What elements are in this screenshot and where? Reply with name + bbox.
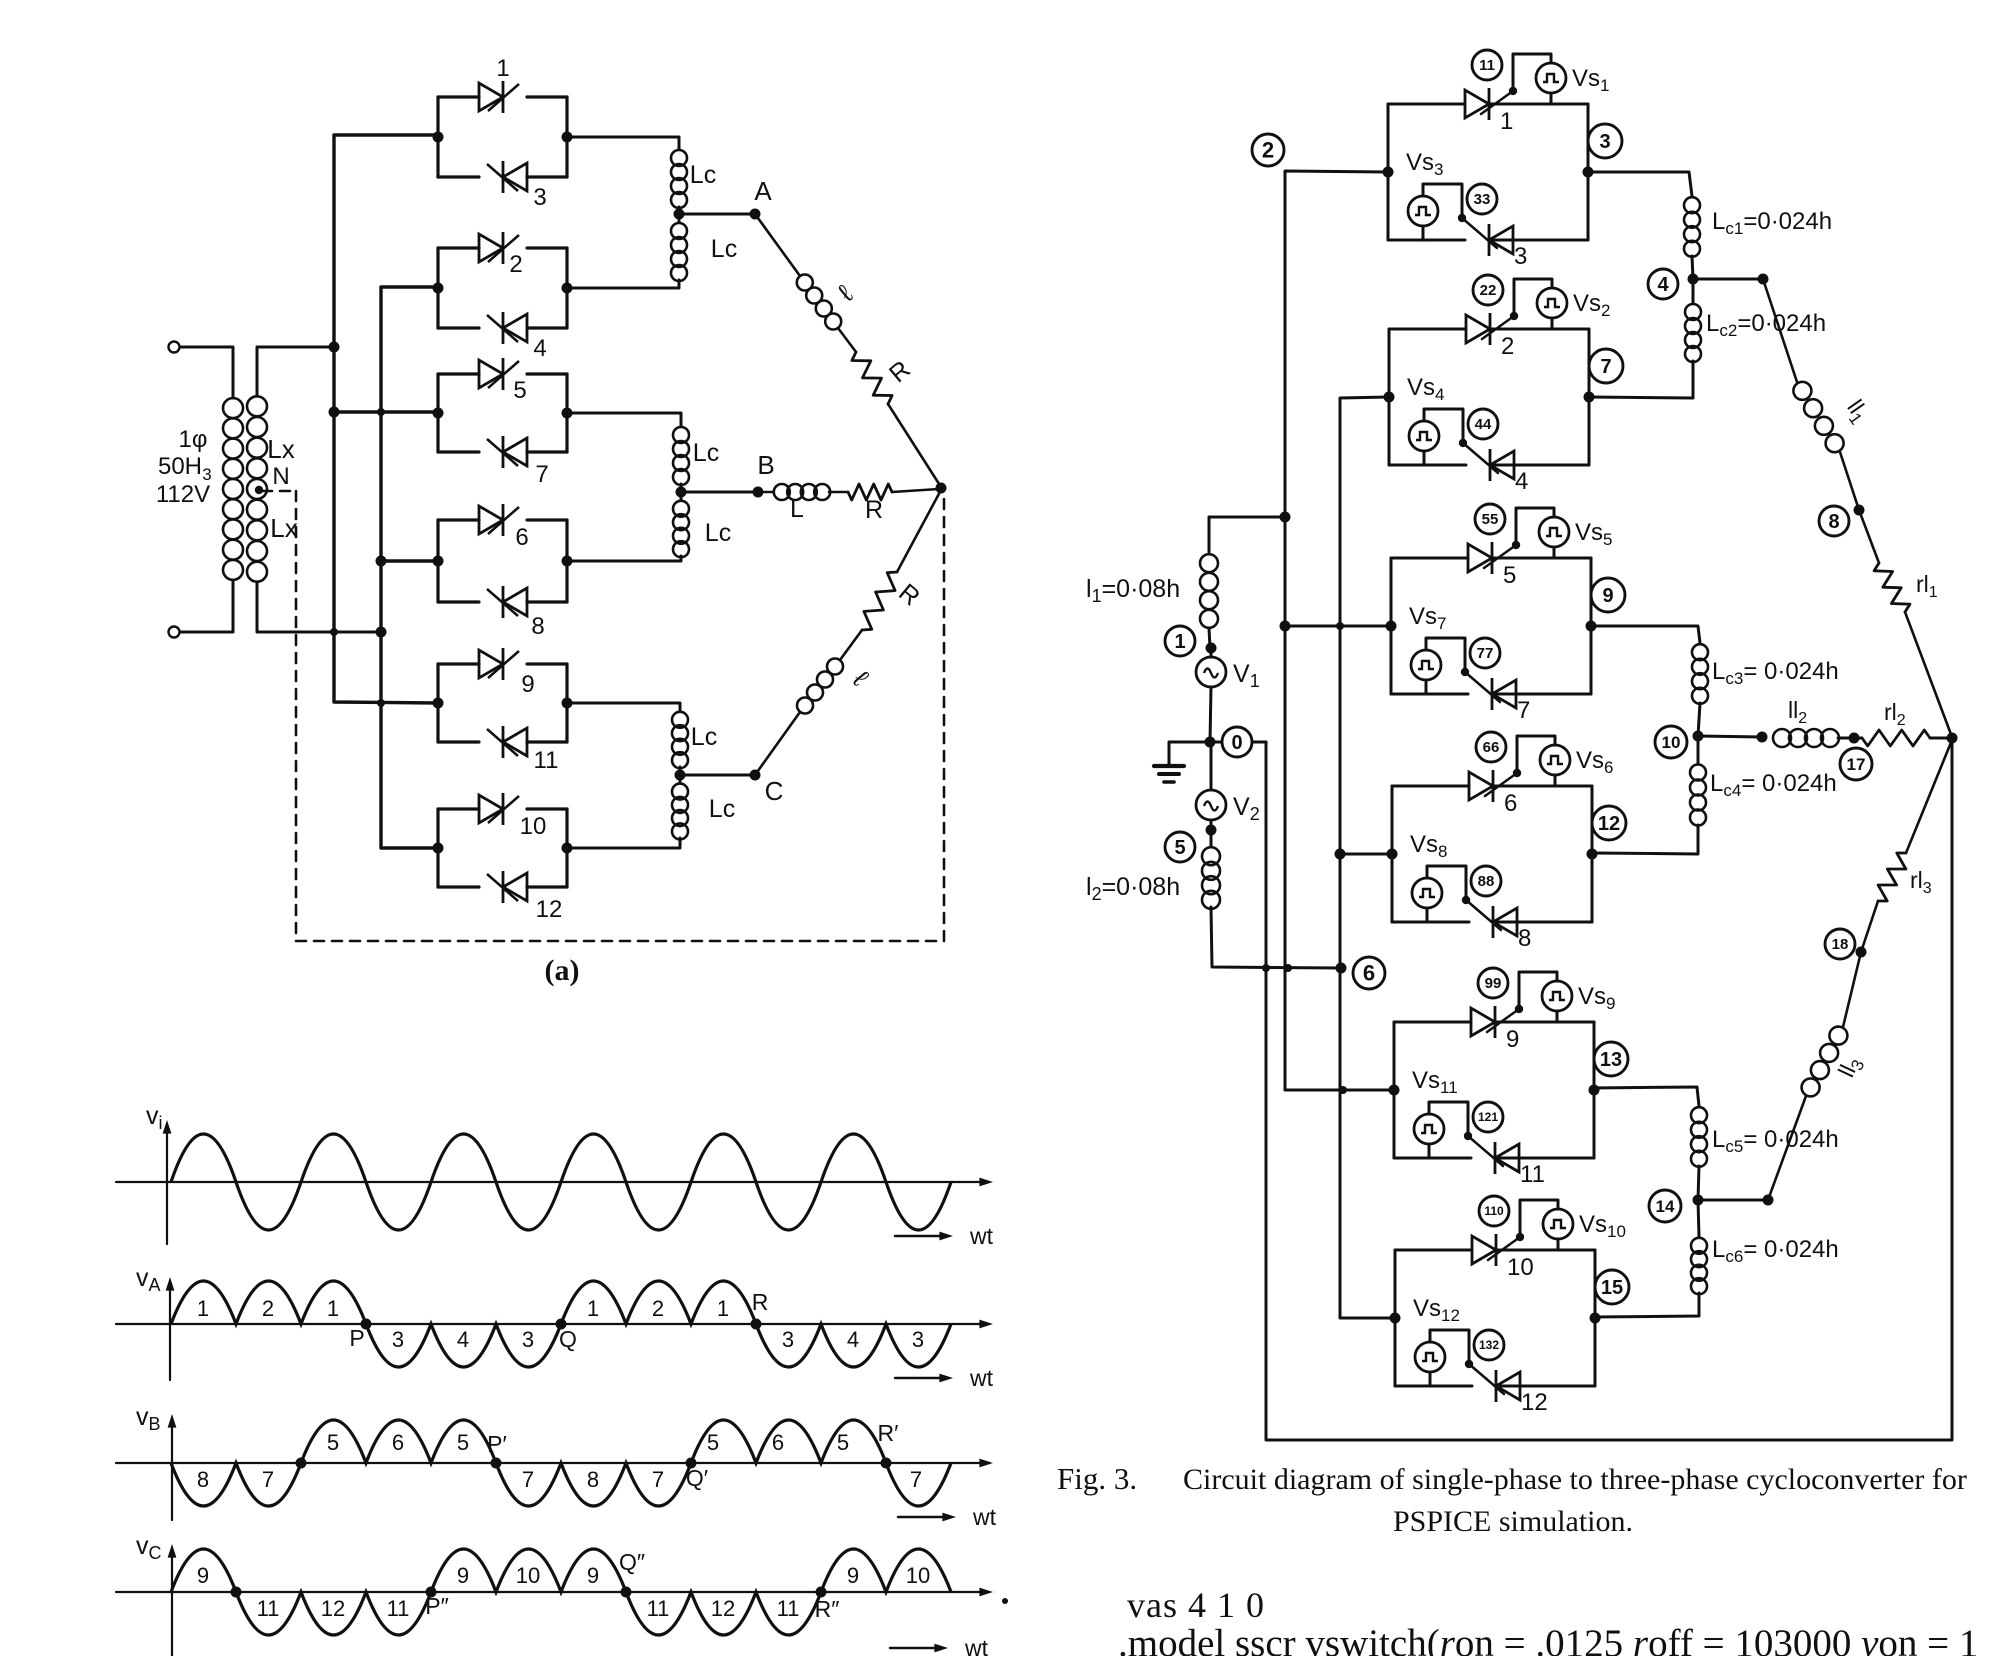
pulse source Vs1 [1536,63,1566,93]
svg-text:6: 6 [1504,790,1517,817]
junction right [1590,1313,1601,1324]
thyristor block 1/3 [1387,104,1390,240]
gate node 66 [1476,732,1506,762]
node P'' [426,1587,437,1598]
junction left [1384,392,1395,403]
junction node 4 [1688,274,1699,285]
wire [1698,1166,1699,1200]
thyristor pair box 9/11 [436,664,439,742]
gate node 77 [1470,638,1500,668]
thyristor 9 [1471,1006,1495,1038]
svg-text:R: R [752,1289,769,1315]
junction node 6 [1336,963,1347,974]
junction [1758,274,1769,285]
node R'' [816,1587,827,1598]
wire [1768,1096,1806,1200]
svg-text:77: 77 [1477,645,1494,662]
wt arrow [898,1516,948,1518]
junction L1 tap [1280,512,1291,523]
wire [1905,612,1952,737]
svg-text:9: 9 [1506,1026,1519,1053]
gate wire thyristor 10 [1488,1237,1520,1260]
inductor L2 [1202,847,1220,909]
PSPICE cycloconverter circuit Fig.3 [1086,50,1958,1440]
wire block5/7 to Lc3 [1591,626,1700,643]
junction node 5 [1206,825,1217,836]
wire node2 to bus [1285,171,1394,1090]
junction [1280,621,1291,632]
wire [1557,1239,1560,1250]
wire [180,580,233,632]
svg-text:5: 5 [457,1430,469,1455]
wire [257,347,334,396]
wire [1840,452,1859,510]
svg-text:11: 11 [777,1596,800,1621]
gate node 44 [1468,409,1498,439]
gate wire thyristor 6 [1485,773,1517,796]
svg-text:7: 7 [1517,697,1530,724]
phase B interphase reactors [567,413,681,426]
svg-text:Lc: Lc [709,795,735,823]
inductor L1 [1200,554,1218,628]
svg-text:Q″: Q″ [619,1549,645,1575]
wire [567,838,680,848]
svg-text:12: 12 [321,1596,345,1621]
svg-text:R′: R′ [878,1420,899,1446]
svg-text:99: 99 [1485,975,1502,992]
gate node 88 [1471,866,1501,896]
svg-text:R″: R″ [815,1596,840,1622]
svg-text:121: 121 [1478,1110,1498,1124]
svg-text:10: 10 [1662,733,1681,752]
junction left [433,132,444,143]
svg-text:N: N [272,463,289,490]
gate wire thyristor 12 [1469,1364,1504,1394]
svg-text:2: 2 [652,1296,664,1321]
node 13 [1594,1042,1628,1076]
thyristor 12 [1496,1370,1520,1402]
node 15 [1595,1270,1629,1304]
crossing blob [1262,964,1270,972]
gate wire thyristor 8 [1466,900,1501,930]
node 10 [1655,726,1687,758]
thyristor 2 [1466,313,1490,345]
input terminal top [169,342,180,353]
svg-text:17: 17 [1847,755,1866,774]
wire [758,491,773,494]
svg-text:66: 66 [1483,739,1500,756]
svg-text:3: 3 [522,1327,534,1352]
gate node 110 [1479,1196,1509,1226]
thyristor 3 [1489,224,1513,256]
resistor rl3 [1878,853,1906,901]
svg-text:2: 2 [1262,137,1274,162]
waveform plots [116,1102,997,1661]
thyristor 10 [479,793,519,825]
thyristor block 9/11 [1393,1022,1396,1158]
bus from secondary top (odd thyristor groups) [334,135,438,703]
Lc6 chain [1698,1200,1699,1237]
gate wiring Vs7 [1426,638,1465,672]
wire [755,214,800,276]
wire to C [680,774,755,777]
svg-text:9: 9 [197,1563,209,1588]
inductor Lc (A upper) [671,150,687,208]
ground symbol [1169,742,1210,766]
node 18 [1825,929,1855,959]
inductor ll3 [1802,1027,1848,1097]
svg-text:11: 11 [1520,1161,1545,1188]
inductor L (phase C) [797,659,843,714]
node Q' [686,1458,697,1469]
wire [1210,830,1213,847]
svg-text:11: 11 [257,1596,280,1621]
source V1 [1196,657,1226,687]
wire [1554,775,1557,786]
wire [1429,1372,1432,1386]
gate wiring Vs4 [1424,409,1463,443]
junction node 14 [1693,1195,1704,1206]
crossing blob [330,628,338,636]
crossing dot [296,1458,307,1469]
svg-text:1: 1 [717,1296,729,1321]
pulse source Vs12 [1415,1342,1445,1372]
wire [1210,742,1213,790]
gate wire thyristor 3 [1462,218,1497,248]
svg-text:Lc: Lc [691,723,717,751]
wire [1698,703,1700,736]
svg-text:9: 9 [521,671,534,698]
thyristor 3 [487,161,527,193]
thyristor 4 [487,312,527,344]
gate wiring Vs12 [1430,1330,1469,1364]
inductor Lc3 [1692,644,1708,704]
svg-text:8: 8 [1828,511,1839,533]
svg-text:3: 3 [912,1327,924,1352]
svg-text:9: 9 [457,1563,469,1588]
svg-text:55: 55 [1482,511,1499,528]
junction [1757,732,1768,743]
gate wire thyristor 11 [1468,1136,1503,1166]
svg-text:5: 5 [1503,562,1516,589]
wire [1210,820,1213,830]
gate wire thyristor 9 [1487,1009,1519,1032]
wire [1846,737,1862,740]
svg-text:Lc: Lc [711,235,737,263]
pulse source Vs5 [1539,517,1569,547]
horizontal axis [116,1462,985,1464]
thyristor 6 [479,504,519,536]
node 14 [1649,1190,1681,1222]
junction node 18 [1856,947,1867,958]
thyristor 8 [487,586,527,618]
svg-text:6: 6 [392,1430,404,1455]
gate node 99 [1478,968,1508,998]
inductor Lc5 [1691,1107,1707,1167]
svg-text:6: 6 [1363,960,1375,985]
svg-text:5: 5 [1174,837,1185,859]
resistor rl2 [1862,730,1930,746]
junction left [433,556,444,567]
wire bus to block 6/8 [1340,853,1392,856]
svg-text:3: 3 [392,1327,404,1352]
wire [1556,1011,1559,1022]
svg-text:22: 22 [1480,282,1497,299]
svg-text:wt: wt [972,1504,997,1530]
svg-text:A: A [754,176,772,206]
inductor Lc2 [1685,304,1701,362]
svg-text:112V: 112V [156,481,210,508]
wire block1/3 to Lc1 [1588,172,1692,196]
wire [755,712,800,775]
wire [897,490,941,572]
resistor rl1 [1874,563,1910,612]
gate wire thyristor 7 [1465,672,1500,702]
node 1 [1165,626,1195,656]
gate node 132 [1474,1330,1504,1360]
thyristor 1 [1465,88,1489,120]
junction right [1586,621,1597,632]
wt arrow [895,1235,945,1237]
svg-text:Circuit diagram of single-phas: Circuit diagram of single-phase to three… [1183,1463,1967,1496]
svg-text:PSPICE simulation.: PSPICE simulation. [1393,1505,1633,1538]
svg-text:7: 7 [262,1467,274,1492]
svg-text:B: B [757,450,774,480]
wire to box 5/7 [334,410,438,413]
crossing dot [231,1587,242,1598]
svg-text:C: C [765,776,784,806]
wire [1692,256,1693,279]
label ll1 [1839,395,1875,428]
wire [1843,952,1861,1027]
junction right [562,283,573,294]
wire [1428,1144,1431,1158]
svg-text:7: 7 [522,1467,534,1492]
wt arrow [895,1377,945,1379]
crossing blob [1284,964,1292,972]
svg-text:Lc: Lc [693,439,719,467]
junction node 8 [1854,505,1865,516]
node 3 [1588,124,1622,158]
junction right [1587,849,1598,860]
junction node 0 [1205,737,1216,748]
pulse source Vs9 [1542,981,1572,1011]
horizontal axis [116,1323,985,1325]
thyristor pair box 10/12 [436,809,439,887]
svg-text:12: 12 [536,896,563,923]
node 2 [1252,134,1284,166]
pulse source Vs7 [1411,650,1441,680]
junction [1335,849,1346,860]
svg-text:13: 13 [1600,1049,1622,1071]
thyristor 5 [479,358,519,390]
svg-text:11: 11 [387,1596,410,1621]
svg-text:3: 3 [782,1327,794,1352]
junction right [562,408,573,419]
node 17 [1840,748,1872,780]
wire [1838,737,1846,740]
wire [1861,901,1878,952]
svg-text:3: 3 [1514,243,1527,270]
node R' [881,1458,892,1469]
junction [1849,733,1860,744]
svg-text:4: 4 [457,1327,469,1352]
node 7 [1589,349,1623,383]
wire [1209,628,1210,648]
junction node 1 [1206,643,1217,654]
gate node 121 [1473,1102,1503,1132]
wire [1906,740,1952,853]
junction B [676,487,687,498]
wire [892,489,939,492]
svg-text:1φ: 1φ [179,426,208,453]
junction left [1383,167,1394,178]
svg-text:10: 10 [1507,1254,1534,1281]
svg-text:vas 4 1 0: vas 4 1 0 [1127,1585,1265,1625]
node R [751,1319,762,1330]
wire [1693,278,1763,281]
node Q [556,1319,567,1330]
node 5 [1165,832,1195,862]
thyristor pair box 6/8 [436,520,439,602]
junction right [1584,392,1595,403]
svg-text:(a): (a) [545,954,580,987]
svg-text:1: 1 [496,55,509,82]
thyristor 5 [1468,542,1492,574]
thyristor 4 [1490,449,1514,481]
wire [1859,510,1879,563]
wire to A [679,213,755,216]
svg-text:wt: wt [964,1635,989,1656]
wire L2 to node 6 [1211,907,1341,968]
label ll3 [1833,1052,1869,1083]
gate wire thyristor 1 [1481,91,1513,114]
wire [1930,737,1952,740]
svg-text:88: 88 [1478,873,1495,890]
thyristor block 2/4 [1388,329,1391,465]
svg-text:10: 10 [516,1563,540,1588]
wire [1252,741,1266,744]
inductor Lc (B upper) [673,427,689,485]
junction right [562,698,573,709]
svg-text:2: 2 [1501,333,1514,360]
bus even thyristor groups [1340,397,1395,1318]
pulse source Vs2 [1537,288,1567,318]
pulse source Vs6 [1540,745,1570,775]
wire [1425,680,1428,694]
node N tap [255,486,263,494]
thyristor block 6/8 [1391,786,1394,922]
node 6 [1353,957,1385,989]
resistor R (phase C) [862,572,897,630]
node 8 [1819,506,1849,536]
svg-text:9: 9 [587,1563,599,1588]
wire [567,280,679,288]
gate node 33 [1467,184,1497,214]
pulse source Vs3 [1408,196,1438,226]
svg-text:11: 11 [1479,57,1495,74]
junction left [433,408,444,419]
inductor Lc4 [1690,765,1706,826]
svg-text:3: 3 [1599,131,1610,153]
svg-text:11: 11 [647,1596,670,1621]
thyristor 2 [479,232,519,264]
junction left [1387,849,1398,860]
thyristor 11 [1495,1142,1519,1174]
inductor L (phase B) [774,484,830,500]
svg-text:L: L [790,495,804,523]
junction [1763,1195,1774,1206]
svg-text:5: 5 [327,1430,339,1455]
pulse source Vs11 [1414,1114,1444,1144]
wire [1551,318,1554,329]
svg-text:8: 8 [531,613,544,640]
svg-text:7: 7 [652,1467,664,1492]
wire L1 top [1209,517,1285,552]
wire [1589,361,1693,398]
wire [1595,825,1698,854]
junction node 10 [1693,731,1704,742]
junction left [1386,621,1397,632]
transformer secondary winding Lx/Lx [247,396,267,581]
stray mark [1002,1598,1008,1604]
svg-text:wt: wt [969,1223,994,1249]
wire [1210,687,1211,742]
thyristor 6 [1469,770,1493,802]
svg-text:7: 7 [910,1467,922,1492]
circuit (a) single-phase to three-phase cycloconverter [156,55,947,987]
horizontal axis [116,1181,985,1183]
svg-text:Q: Q [559,1326,577,1352]
thyristor 9 [479,648,519,680]
pulse source Vs10 [1543,1209,1573,1239]
svg-text:0: 0 [1231,732,1242,754]
svg-text:4: 4 [847,1327,859,1352]
svg-text:44: 44 [1475,416,1492,433]
junction A [674,209,685,220]
thyristor block 10/12 [1394,1250,1397,1386]
gate wiring Vs3 [1423,184,1462,218]
svg-text:10: 10 [906,1563,930,1588]
node 12 [1592,806,1626,840]
wire [1210,741,1222,744]
svg-text:1: 1 [197,1296,209,1321]
horizontal axis [116,1591,985,1593]
svg-text:Lx: Lx [270,513,297,543]
node P [361,1319,372,1330]
vertical axis [171,1422,173,1520]
svg-text:P: P [349,1325,364,1351]
svg-text:6: 6 [515,524,528,551]
svg-text:1: 1 [1174,631,1185,653]
svg-text:2: 2 [509,251,522,278]
node 9 [1591,578,1625,612]
junction left [433,698,444,709]
load common junction [1947,733,1958,744]
node C [750,770,761,781]
svg-text:5: 5 [837,1430,849,1455]
wire bus to block 5/7 [1285,625,1391,628]
resistor R (phase A) [852,352,892,404]
svg-text:Lc: Lc [690,161,716,189]
gate node 55 [1475,504,1505,534]
junction secondary bottom to bus [376,627,387,638]
svg-text:14: 14 [1656,1197,1675,1216]
gate wiring Vs11 [1429,1102,1468,1136]
svg-text:8: 8 [1518,925,1531,952]
vertical axis [166,1128,168,1244]
wire [1423,451,1426,465]
